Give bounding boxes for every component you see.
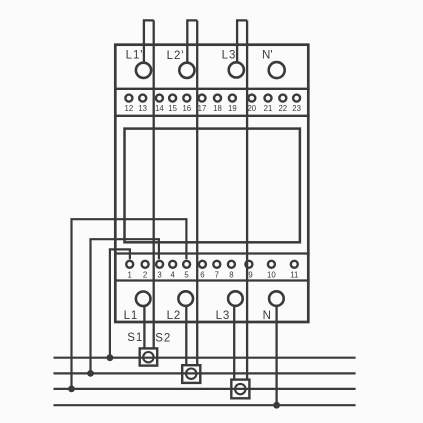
terminal L2' (load side) <box>179 63 194 78</box>
svg-text:13: 13 <box>138 104 147 113</box>
svg-text:L2': L2' <box>167 50 185 62</box>
terminal N' (load side) <box>269 62 285 78</box>
svg-text:1: 1 <box>128 271 132 280</box>
svg-text:15: 15 <box>168 104 177 113</box>
svg-text:16: 16 <box>182 104 191 113</box>
wire: L1' outgoing cable (left conductor + top cap) <box>144 20 154 62</box>
bus wire L2 <box>54 372 356 374</box>
svg-text:18: 18 <box>213 104 222 113</box>
terminal 23 <box>293 95 300 102</box>
current transformer CT3 (on L3 busbar) <box>231 380 249 399</box>
terminal 19 <box>229 95 236 102</box>
terminal numbers 1-11 <box>128 271 299 280</box>
svg-text:4: 4 <box>171 271 176 280</box>
wire: L1 phase spine / module divider 1 (runs from top cable into CT1) <box>153 20 155 348</box>
terminal 16 <box>183 95 190 102</box>
terminal 18 <box>214 95 221 102</box>
terminal 14 <box>156 95 163 102</box>
wire: N terminal down to N busbar <box>275 307 277 405</box>
wire: L3' outgoing cable (left conductor + top cap) <box>237 20 247 62</box>
svg-text:9: 9 <box>248 271 252 280</box>
svg-text:3: 3 <box>157 271 161 280</box>
meter M1 case outline <box>115 45 308 322</box>
svg-text:L3': L3' <box>222 50 240 62</box>
wire: voltage tap from L3 busbar to terminal 5 <box>72 219 187 389</box>
terminal 9 <box>245 261 252 268</box>
svg-text:L1: L1 <box>124 310 139 322</box>
wire: voltage tap from L1 busbar to terminal 1 <box>110 249 130 357</box>
svg-text:L2: L2 <box>167 310 182 322</box>
terminal 4 <box>169 261 176 268</box>
svg-text:19: 19 <box>228 104 237 113</box>
wire: L1 terminal down to CT1 (S1 conductor) <box>143 307 145 348</box>
svg-text:5: 5 <box>184 271 189 280</box>
svg-text:8: 8 <box>229 271 233 280</box>
svg-text:L3: L3 <box>216 310 231 322</box>
junction dot on N busbar <box>273 402 280 409</box>
svg-text:14: 14 <box>155 104 164 113</box>
wire: L3 phase spine / module divider 3 (runs from top cable into CT3) <box>246 20 248 379</box>
terminal 20 <box>248 95 255 102</box>
terminal L3' (load side) <box>229 62 244 77</box>
svg-text:23: 23 <box>292 104 301 113</box>
bottom terminal strip lower line <box>114 279 310 281</box>
terminal numbers 12-23 <box>125 104 301 113</box>
terminal 1 <box>126 261 133 268</box>
terminal L1 (supply side) <box>136 292 151 307</box>
terminal 3 <box>156 261 163 268</box>
wire: L3 terminal down to CT3 <box>233 307 235 380</box>
wire: L2 terminal down to CT2 <box>185 307 187 365</box>
svg-text:22: 22 <box>278 104 287 113</box>
terminal 21 <box>265 95 272 102</box>
svg-text:N': N' <box>262 49 273 61</box>
wire: voltage tap from L2 busbar to terminal 3 <box>91 239 159 373</box>
terminal 6 <box>199 261 206 268</box>
current transformer CT1 (on L1 busbar) <box>140 348 158 365</box>
svg-text:S1: S1 <box>127 332 143 344</box>
svg-text:17: 17 <box>198 104 207 113</box>
svg-text:10: 10 <box>267 271 276 280</box>
bus wire N (bottom busbar) <box>54 404 356 406</box>
terminal 15 <box>169 95 176 102</box>
top terminal strip upper line <box>114 88 310 90</box>
top terminal strip lower line <box>114 115 310 117</box>
terminal 12 <box>125 95 132 102</box>
terminal 2 <box>142 261 149 268</box>
svg-text:N: N <box>263 310 271 322</box>
junction dot on L2 busbar <box>87 370 94 377</box>
wire: L2' outgoing cable (left conductor + top cap) <box>187 20 197 62</box>
terminal L3 (supply side) <box>228 291 243 306</box>
svg-text:L1': L1' <box>126 50 144 62</box>
svg-text:21: 21 <box>264 104 273 113</box>
terminal 13 <box>139 95 146 102</box>
svg-text:2: 2 <box>143 271 147 280</box>
bus wire L1 (top busbar) <box>54 357 356 359</box>
terminal 10 <box>268 261 275 268</box>
meter display window <box>125 129 300 243</box>
terminal 8 <box>228 261 235 268</box>
terminal 17 <box>199 95 206 102</box>
terminal 5 <box>183 261 190 268</box>
terminal N (supply side) <box>269 291 284 306</box>
terminal 11 <box>291 261 298 268</box>
svg-text:20: 20 <box>247 104 256 113</box>
svg-text:11: 11 <box>290 271 298 280</box>
bus wire L3 <box>54 388 356 390</box>
svg-text:S2: S2 <box>155 333 171 345</box>
svg-text:7: 7 <box>215 271 219 280</box>
junction dot on L3 busbar <box>68 386 75 393</box>
terminal 7 <box>213 261 220 268</box>
wire: L2 phase spine / module divider 2 (runs from top cable into CT2) <box>196 20 198 365</box>
terminal L2 (supply side) <box>178 291 193 306</box>
svg-text:12: 12 <box>125 104 134 113</box>
terminal L1' (load side) <box>136 63 151 78</box>
svg-text:6: 6 <box>200 271 204 280</box>
bottom terminal strip upper line <box>114 252 310 254</box>
current transformer CT2 (on L2 busbar) <box>182 365 200 383</box>
junction dot on L1 busbar <box>107 354 114 361</box>
terminal 22 <box>279 95 286 102</box>
